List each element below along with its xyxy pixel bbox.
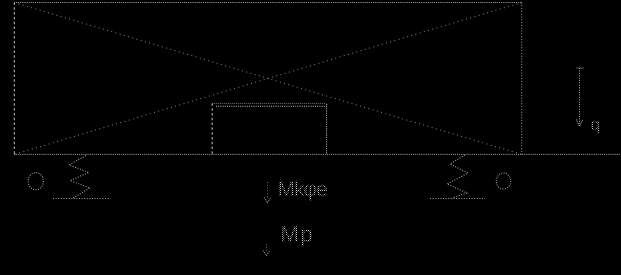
svg-text:q: q	[590, 115, 599, 134]
opening rect inner dotted top line	[216, 105, 327, 107]
left spring base line	[53, 198, 109, 200]
right spring base line	[430, 198, 485, 200]
beam outline top edge	[14, 2, 522, 4]
opening rect right edge (dotted)	[326, 104, 328, 154]
beam outline right edge	[521, 3, 523, 155]
svg-text:Mp: Mp	[280, 222, 314, 247]
beam outline left edge (dashed)	[13, 3, 15, 155]
opening rect top faint line	[212, 102, 326, 104]
svg-text:Mkφe: Mkφe	[277, 178, 327, 201]
opening rect left edge (dashed)	[211, 103, 213, 154]
left spring zigzag	[69, 156, 90, 199]
diagonal TR to BL	[14, 3, 521, 155]
load arrow q: vertical shaft	[579, 68, 581, 124]
left support circle o	[28, 173, 43, 190]
Mkpe arrow (small down arrow)	[267, 182, 269, 199]
beam bottom line (extends full width)	[14, 153, 620, 155]
right spring zigzag	[447, 155, 468, 198]
Mp arrow (small down arrow)	[266, 244, 268, 252]
right support circle o	[496, 173, 511, 189]
diagonal TL to BR	[14, 3, 521, 155]
load arrow q: top tick	[577, 67, 584, 69]
load arrow q: arrowhead	[576, 120, 582, 127]
